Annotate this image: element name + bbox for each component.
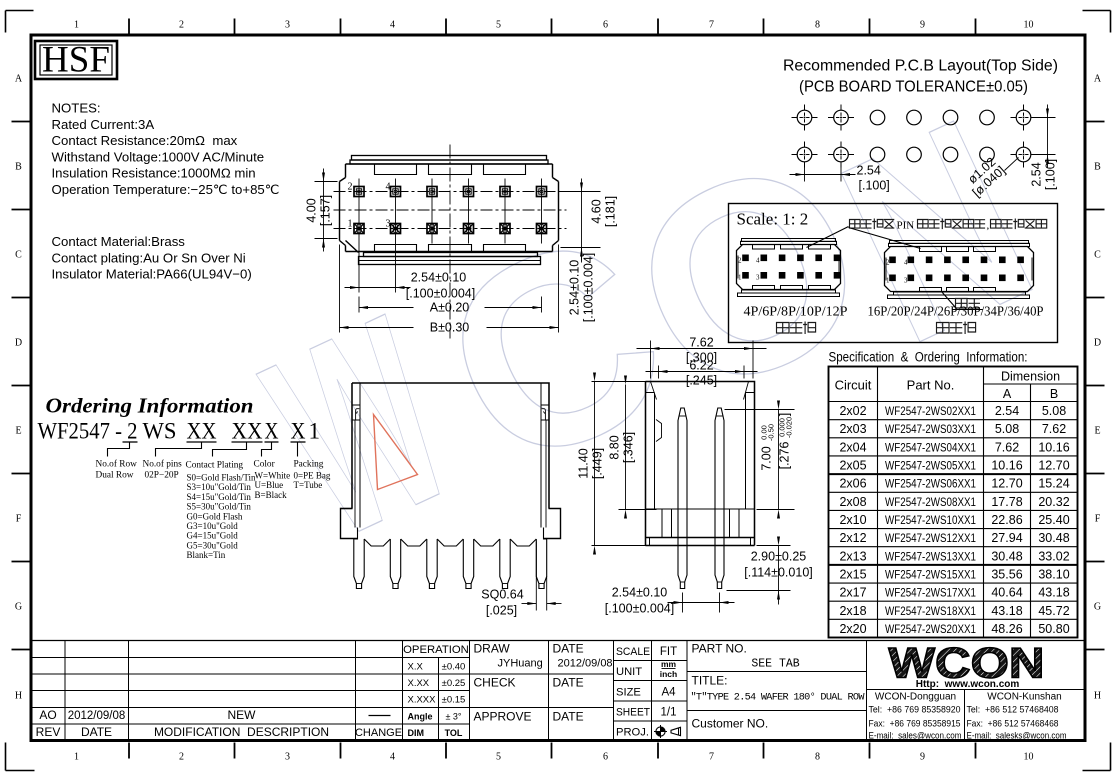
dimension 7.62 [.300] (637, 336, 767, 379)
svg-text:10.16: 10.16 (1038, 440, 1069, 454)
operation tolerance table (403, 641, 470, 741)
specification table (829, 350, 1078, 638)
svg-text:No.of Row: No.of Row (96, 459, 138, 470)
svg-text:Ordering Information: Ordering Information (46, 394, 254, 418)
svg-text:H: H (1094, 691, 1101, 702)
svg-text:2x20: 2x20 (839, 622, 866, 636)
svg-text:45.72: 45.72 (1038, 604, 1069, 618)
svg-text:Fax: +86 769 85358915: Fax: +86 769 85358915 (869, 719, 961, 730)
WCON logo and contacts (867, 640, 1085, 742)
svg-text:27.94: 27.94 (991, 531, 1022, 545)
svg-text:Contact plating:Au Or Sn Over: Contact plating:Au Or Sn Over Ni (52, 250, 246, 265)
svg-text:2.54±0.10: 2.54±0.10 (612, 586, 668, 600)
dimension 2.54±0.10 bottom (345, 244, 476, 301)
svg-text:3: 3 (904, 277, 908, 285)
svg-text:[.100]: [.100] (859, 179, 890, 193)
svg-text:30.48: 30.48 (991, 549, 1022, 563)
svg-text:Fax: +86 512 57468468: Fax: +86 512 57468468 (967, 719, 1059, 730)
scale box frame (729, 204, 1058, 343)
svg-text:2: 2 (179, 20, 184, 31)
svg-text:3: 3 (386, 219, 391, 230)
svg-text:2x06: 2x06 (839, 477, 866, 491)
svg-text:2.54±0.10: 2.54±0.10 (411, 271, 467, 285)
svg-text:B: B (1050, 387, 1058, 401)
PCB layout title and pads (783, 58, 1058, 168)
svg-text:B=Black: B=Black (255, 490, 288, 500)
small connector 16P-40P (885, 241, 1034, 299)
svg-text:WF2547-2WS03XX1: WF2547-2WS03XX1 (885, 422, 976, 436)
svg-text:4: 4 (390, 20, 395, 31)
svg-text:mm: mm (661, 659, 677, 669)
svg-text:33.02: 33.02 (1038, 549, 1069, 563)
svg-text:S0=Gold Flash/Tin: S0=Gold Flash/Tin (187, 473, 257, 483)
svg-text:B: B (1094, 162, 1101, 173)
svg-text:HSF: HSF (42, 40, 110, 81)
svg-text:WF2547-2WS13XX1: WF2547-2WS13XX1 (885, 549, 976, 563)
svg-text:[.346]: [.346] (622, 432, 636, 463)
svg-text:[.449]: [.449] (591, 448, 605, 479)
svg-text:SQ0.64: SQ0.64 (481, 588, 523, 602)
svg-text:15.24: 15.24 (1038, 477, 1069, 491)
svg-text:D: D (15, 338, 22, 349)
svg-text:WF2547-2WS05XX1: WF2547-2WS05XX1 (885, 459, 976, 473)
svg-text:2x08: 2x08 (839, 495, 866, 509)
top view connector body (334, 145, 567, 339)
svg-text:G: G (15, 602, 22, 613)
svg-text:Rated Current:3A: Rated Current:3A (52, 117, 155, 132)
svg-text:12.70: 12.70 (1038, 459, 1069, 473)
svg-text:6: 6 (603, 752, 608, 763)
svg-text:2x10: 2x10 (839, 513, 866, 527)
svg-text:REV: REV (36, 725, 61, 739)
svg-text:H: H (15, 691, 22, 702)
svg-text:AO: AO (39, 708, 56, 722)
scale unit size sheet proj block (614, 641, 688, 741)
svg-text:[.100±0.004]: [.100±0.004] (605, 602, 674, 616)
corner trim mark top-right (1083, 11, 1111, 33)
svg-text:F: F (16, 514, 22, 525)
svg-text:DATE: DATE (553, 676, 584, 690)
svg-text:A: A (15, 74, 23, 85)
svg-text:WF2547-2WS20XX1: WF2547-2WS20XX1 (885, 622, 976, 636)
svg-text:4: 4 (386, 182, 391, 193)
svg-text:-0.50: -0.50 (767, 424, 776, 441)
svg-text:T=Tube: T=Tube (294, 480, 323, 490)
svg-text:8: 8 (815, 20, 820, 31)
svg-text:APPROVE: APPROVE (474, 710, 532, 724)
svg-text:SCALE: SCALE (616, 646, 650, 658)
svg-text:XX: XX (232, 419, 263, 444)
svg-text:[.100±0.004]: [.100±0.004] (582, 253, 596, 322)
svg-text:1: 1 (886, 277, 890, 285)
svg-text:CHECK: CHECK (474, 676, 516, 690)
svg-text:FIT: FIT (660, 646, 677, 658)
svg-text:1: 1 (309, 419, 321, 444)
svg-text:10: 10 (1024, 20, 1034, 31)
svg-text:4.00: 4.00 (305, 198, 319, 222)
dimension 4.00 [.157] (305, 169, 338, 252)
dimension 8.80 [.346] (608, 376, 657, 519)
svg-text:4: 4 (756, 257, 760, 265)
svg-text:1: 1 (74, 752, 79, 763)
svg-text:6.22: 6.22 (689, 359, 713, 373)
svg-text:2: 2 (179, 752, 184, 763)
svg-text:OPERATION: OPERATION (403, 644, 469, 656)
svg-text:35.56: 35.56 (991, 567, 1022, 581)
caption 4P/6P structure (744, 305, 848, 335)
svg-text:X: X (265, 419, 279, 444)
svg-text:Contact Resistance:20mΩ max: Contact Resistance:20mΩ max (52, 133, 238, 148)
svg-text:[.181]: [.181] (604, 196, 618, 227)
svg-text:DATE: DATE (81, 725, 112, 739)
svg-text:WS: WS (143, 419, 177, 444)
svg-text:E-mail: sales@wcon.com: E-mail: sales@wcon.com (869, 731, 962, 742)
dimension 11.40 [.449] (577, 373, 648, 555)
svg-text:X.X: X.X (408, 662, 424, 673)
svg-text:2.54±0.10: 2.54±0.10 (568, 260, 582, 316)
svg-text:DATE: DATE (553, 642, 584, 656)
svg-text:inch: inch (660, 669, 677, 679)
svg-text:7.62: 7.62 (689, 336, 713, 350)
svg-text:F: F (1095, 514, 1101, 525)
svg-text:7.62: 7.62 (995, 440, 1019, 454)
svg-text:G0=Gold Flash: G0=Gold Flash (187, 511, 243, 521)
svg-text:10: 10 (1024, 752, 1034, 763)
corner trim mark bottom-right (1083, 743, 1111, 771)
svg-text:12.70: 12.70 (991, 477, 1022, 491)
ordering information block (38, 394, 331, 561)
svg-text:TITLE:: TITLE: (692, 674, 728, 688)
svg-text:±0.25: ±0.25 (442, 678, 466, 689)
annotation chinese text (850, 219, 1047, 232)
svg-text:UNIT: UNIT (616, 666, 642, 678)
svg-text:2.54: 2.54 (857, 164, 881, 178)
svg-text:SHEET: SHEET (616, 707, 650, 719)
svg-text:2.54: 2.54 (1030, 162, 1044, 186)
svg-text:25.40: 25.40 (1038, 513, 1069, 527)
svg-text:3: 3 (285, 20, 290, 31)
svg-text:Withstand Voltage:1000V AC/Min: Withstand Voltage:1000V AC/Minute (52, 149, 265, 164)
side view connector body (646, 382, 755, 589)
svg-text:43.18: 43.18 (1038, 586, 1069, 600)
svg-text:2x05: 2x05 (839, 459, 866, 473)
svg-text:Contact Material:Brass: Contact Material:Brass (52, 234, 186, 249)
svg-text:7.62: 7.62 (1042, 422, 1066, 436)
leader lines annotation (807, 227, 921, 249)
svg-text:WCON-Dongguan: WCON-Dongguan (875, 692, 956, 703)
svg-text:Dual Row: Dual Row (96, 471, 134, 481)
svg-text:Circuit: Circuit (835, 378, 872, 393)
dimension SQ0.64 [.025] (481, 542, 561, 618)
svg-text:5.08: 5.08 (995, 422, 1019, 436)
svg-text:2x03: 2x03 (839, 422, 866, 436)
svg-text:S4=15u"Gold/Tin: S4=15u"Gold/Tin (187, 492, 252, 502)
dimension 6.22 [.245] (646, 359, 758, 388)
svg-text:10.16: 10.16 (991, 459, 1022, 473)
svg-text:Tel: +86 512 57468408: Tel: +86 512 57468408 (967, 705, 1059, 716)
svg-text:Scale: 1: 2: Scale: 1: 2 (737, 210, 809, 229)
notch label 缺口 (942, 292, 983, 310)
svg-text:A±0.20: A±0.20 (430, 301, 470, 315)
svg-text:38.10: 38.10 (1038, 567, 1069, 581)
svg-text:Part No.: Part No. (907, 378, 955, 393)
svg-text:,: , (987, 220, 990, 232)
svg-text:WF2547-2WS02XX1: WF2547-2WS02XX1 (885, 404, 976, 418)
svg-text:6: 6 (603, 20, 608, 31)
svg-text:Contact Plating: Contact Plating (186, 461, 244, 471)
svg-text:5: 5 (496, 752, 501, 763)
svg-text:5: 5 (496, 20, 501, 31)
svg-text:WF2547-2WS18XX1: WF2547-2WS18XX1 (885, 604, 976, 618)
svg-text:SIZE: SIZE (616, 686, 641, 698)
svg-text:G5=30u"Gold: G5=30u"Gold (187, 540, 239, 550)
svg-text:8.80: 8.80 (608, 435, 622, 459)
svg-text:2: 2 (738, 257, 742, 265)
svg-text:MODIFICATION DESCRIPTION: MODIFICATION DESCRIPTION (154, 725, 329, 739)
svg-text:G4=15u"Gold: G4=15u"Gold (187, 531, 239, 541)
svg-text:2x17: 2x17 (839, 586, 866, 600)
svg-text:9: 9 (920, 20, 925, 31)
svg-text:2x13: 2x13 (839, 549, 866, 563)
svg-text:WCON-Kunshan: WCON-Kunshan (987, 692, 1061, 703)
svg-text:50.80: 50.80 (1038, 622, 1069, 636)
svg-text:02P−20P: 02P−20P (145, 471, 179, 481)
svg-text:U=Blue: U=Blue (255, 480, 284, 490)
svg-text:A: A (1003, 387, 1012, 401)
small connector 4P-12P (737, 239, 841, 297)
svg-text:0=PE Bag: 0=PE Bag (294, 471, 331, 481)
svg-text:2x12: 2x12 (839, 531, 866, 545)
draw check approve block (470, 641, 614, 741)
svg-text:1: 1 (74, 20, 79, 31)
HSF logo (35, 40, 117, 81)
svg-text:Angle: Angle (408, 712, 433, 722)
svg-text:17.78: 17.78 (991, 495, 1022, 509)
svg-text:"T"TYPE 2.54 WAFER 180° DUAL R: "T"TYPE 2.54 WAFER 180° DUAL ROW (691, 692, 866, 704)
svg-text:20.32: 20.32 (1038, 495, 1069, 509)
part no title customer block (687, 641, 867, 741)
svg-text:7.00: 7.00 (760, 446, 774, 470)
svg-text:PART NO.: PART NO. (692, 642, 747, 656)
svg-text:22.86: 22.86 (991, 513, 1022, 527)
svg-text:WF2547-2WS04XX1: WF2547-2WS04XX1 (885, 440, 976, 454)
svg-text:JYHuang: JYHuang (498, 658, 543, 670)
svg-text:2: 2 (886, 259, 890, 267)
svg-text:WF2547-2WS06XX1: WF2547-2WS06XX1 (885, 477, 976, 491)
svg-text:Http: www.wcon.com: Http: www.wcon.com (916, 679, 1020, 690)
svg-text:A4: A4 (661, 686, 676, 698)
watermark WCON (232, 63, 1070, 595)
svg-text:Packing: Packing (294, 460, 324, 470)
svg-text:3: 3 (756, 274, 760, 282)
dimension 2.54±0.10 side (605, 586, 735, 616)
svg-text:X.XX: X.XX (408, 678, 430, 689)
svg-text:Blank=Tin: Blank=Tin (187, 550, 226, 560)
svg-text:2012/09/08: 2012/09/08 (558, 658, 613, 670)
svg-text:[.157]: [.157] (319, 195, 333, 226)
svg-text:NEW: NEW (228, 708, 257, 722)
svg-text:Tel: +86 769 85358920: Tel: +86 769 85358920 (869, 705, 961, 716)
svg-text:Dimension: Dimension (1001, 370, 1060, 384)
svg-text:SEE TAB: SEE TAB (751, 658, 799, 671)
svg-text:4P/6P/8P/10P/12P: 4P/6P/8P/10P/12P (744, 305, 848, 320)
svg-text:2012/09/08: 2012/09/08 (68, 710, 126, 722)
svg-text:[.025]: [.025] (486, 604, 517, 618)
svg-text:G: G (1094, 602, 1101, 613)
dimension 7.00 tolerance (725, 401, 795, 519)
svg-text:8: 8 (815, 752, 820, 763)
svg-text:2x02: 2x02 (839, 404, 866, 418)
svg-text:DIM: DIM (408, 728, 425, 738)
svg-text:Operation Temperature:−25℃ to+: Operation Temperature:−25℃ to+85℃ (52, 182, 280, 197)
svg-text:[.276: [.276 (778, 442, 792, 470)
svg-text:Specification & Ordering In: Specification & Ordering Information: (829, 350, 1028, 365)
svg-text:WF2547-2WS12XX1: WF2547-2WS12XX1 (885, 531, 976, 545)
svg-text:1/1: 1/1 (661, 707, 677, 719)
svg-text:C: C (1094, 250, 1101, 261)
svg-text:±0.15: ±0.15 (442, 695, 466, 706)
svg-text:9: 9 (920, 752, 925, 763)
dimension vertical 2.54±0.10 right (568, 248, 596, 323)
svg-text:PROJ.: PROJ. (616, 726, 649, 738)
svg-text:E: E (15, 426, 21, 437)
svg-text:(PCB BOARD TOLERANCE±0.05): (PCB BOARD TOLERANCE±0.05) (799, 79, 1028, 96)
dimension 2.54 [.100] pcb (790, 164, 890, 193)
dimension 2.54 [.100] vertical pcb (1030, 105, 1058, 191)
svg-text:WF2547 - 2: WF2547 - 2 (38, 419, 138, 444)
svg-text:2x15: 2x15 (839, 567, 866, 581)
corner trim mark bottom-left (6, 743, 35, 771)
svg-text:Insulation Resistance:1000MΩ m: Insulation Resistance:1000MΩ min (52, 166, 256, 181)
dimension B±0.30 (340, 245, 559, 335)
svg-text:40.64: 40.64 (991, 586, 1022, 600)
dimension A±0.20 (359, 297, 542, 315)
watermark orange triangle (374, 415, 418, 490)
svg-text:G3=10u"Gold: G3=10u"Gold (187, 521, 239, 531)
svg-text:XX: XX (187, 419, 217, 444)
svg-text:S5=30u"Gold/Tin: S5=30u"Gold/Tin (187, 502, 252, 512)
caption 16P/40P structure (868, 305, 1044, 335)
svg-text:2.54: 2.54 (995, 404, 1019, 418)
svg-text:C: C (15, 250, 22, 261)
svg-text:Color: Color (254, 460, 276, 470)
svg-text:2x18: 2x18 (839, 604, 866, 618)
svg-text:7: 7 (709, 20, 714, 31)
svg-text:7: 7 (709, 752, 714, 763)
svg-text:]: ] (778, 413, 792, 416)
svg-text:DATE: DATE (553, 710, 584, 724)
svg-text:TOL: TOL (445, 728, 463, 738)
svg-text:Recommended P.C.B Layout(Top S: Recommended P.C.B Layout(Top Side) (783, 58, 1058, 75)
dimension 2.90±0.25 (727, 537, 813, 605)
svg-text:B: B (15, 162, 22, 173)
svg-text:E-mail: salesks@wcon.com: E-mail: salesks@wcon.com (967, 731, 1067, 742)
svg-text:CHANGE: CHANGE (355, 727, 402, 739)
svg-text:43.18: 43.18 (991, 604, 1022, 618)
svg-text:PIN: PIN (897, 220, 915, 232)
svg-text:4.60: 4.60 (590, 199, 604, 223)
svg-text:No.of pins: No.of pins (143, 459, 183, 470)
svg-text:-0.020: -0.020 (785, 417, 794, 438)
svg-text:4: 4 (390, 752, 395, 763)
svg-text:DRAW: DRAW (474, 642, 511, 656)
svg-text:B±0.30: B±0.30 (430, 321, 470, 335)
svg-text:1: 1 (348, 219, 353, 230)
svg-text:Customer NO.: Customer NO. (692, 717, 769, 731)
svg-text:± 3°: ± 3° (445, 712, 461, 722)
svg-text:A: A (1094, 74, 1102, 85)
svg-text:X: X (291, 419, 306, 444)
svg-text:WF2547-2WS08XX1: WF2547-2WS08XX1 (885, 495, 976, 509)
svg-text:WF2547-2WS15XX1: WF2547-2WS15XX1 (885, 567, 976, 581)
svg-text:[.245]: [.245] (686, 374, 717, 388)
svg-text:±0.40: ±0.40 (442, 662, 466, 673)
svg-text:30.48: 30.48 (1038, 531, 1069, 545)
notes text block (52, 101, 280, 282)
svg-text:E: E (1094, 426, 1100, 437)
svg-text:3: 3 (285, 752, 290, 763)
svg-text:[.100]: [.100] (1044, 159, 1058, 190)
svg-text:[.100±0.004]: [.100±0.004] (406, 287, 475, 301)
svg-text:1: 1 (738, 274, 742, 282)
svg-text:Insulator Material:PA66(UL94V−: Insulator Material:PA66(UL94V−0) (52, 267, 252, 282)
svg-text:4: 4 (904, 259, 908, 267)
revision table (32, 641, 1085, 741)
svg-text:16P/20P/24P/26P/30P/34P/36/40P: 16P/20P/24P/26P/30P/34P/36/40P (868, 305, 1044, 320)
svg-text:D: D (1094, 338, 1101, 349)
svg-text:WF2547-2WS10XX1: WF2547-2WS10XX1 (885, 513, 976, 527)
svg-text:48.26: 48.26 (991, 622, 1022, 636)
dimension 4.60 [.181] (561, 179, 618, 261)
svg-text:11.40: 11.40 (577, 448, 591, 478)
svg-text:X.XXX: X.XXX (408, 695, 437, 706)
corner trim mark top-left (6, 11, 34, 33)
svg-text:NOTES:: NOTES: (52, 101, 101, 116)
front view connector body (341, 383, 561, 589)
svg-text:W=White: W=White (255, 471, 291, 481)
svg-text:WF2547-2WS17XX1: WF2547-2WS17XX1 (885, 586, 976, 600)
svg-text:S3=10u"Gold/Tin: S3=10u"Gold/Tin (187, 482, 252, 492)
svg-text:5.08: 5.08 (1042, 404, 1066, 418)
dimension ø1.02 [ø.040] (965, 155, 1018, 200)
svg-text:2x04: 2x04 (839, 440, 866, 454)
svg-text:2: 2 (348, 182, 353, 193)
